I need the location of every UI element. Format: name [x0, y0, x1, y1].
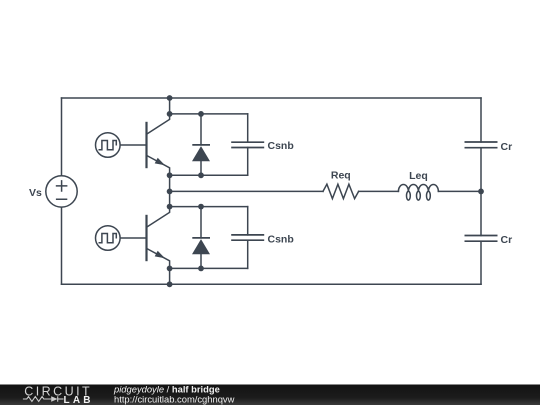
- svg-text:Csnb: Csnb: [268, 140, 294, 152]
- svg-text:Vs: Vs: [29, 187, 42, 199]
- svg-text:Cr: Cr: [501, 234, 513, 246]
- svg-text:LAB: LAB: [64, 395, 91, 405]
- svg-text:Req: Req: [331, 170, 351, 182]
- svg-text:Leq: Leq: [409, 170, 428, 182]
- svg-text:Csnb: Csnb: [268, 234, 294, 246]
- svg-text:Cr: Cr: [501, 141, 513, 153]
- svg-text:http://circuitlab.com/cghnqvw: http://circuitlab.com/cghnqvw: [114, 394, 235, 405]
